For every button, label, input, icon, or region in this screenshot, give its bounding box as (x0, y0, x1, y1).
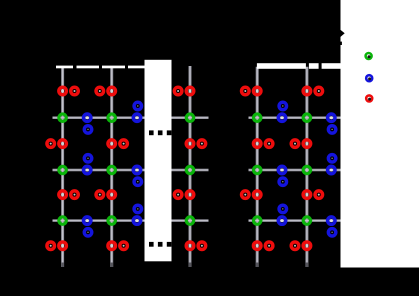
B-site blue pair row 2 x=87 (left) (84, 155, 92, 174)
B-site blue pair row 2 x=331 (right) (328, 155, 336, 174)
A-site green atom row 3 x=63 (left) (59, 217, 66, 224)
O2 red pair row 3 line x=63 (left) (59, 191, 78, 199)
wire vertical line 2 (left panel) (110, 67, 113, 267)
legend panel (white box) (341, 0, 419, 268)
wire vertical line 2 (right panel) (305, 67, 308, 267)
A-site green atom row 2 x=190 (left) (186, 166, 193, 173)
O2 red pair row 1 line x=190 (left) (174, 87, 193, 95)
O2 red pair row 1 line x=307 (right) (303, 87, 322, 95)
O2 red pair row 3 line x=307 (right) (303, 191, 322, 199)
B-site blue pair row 1 x=331 (right) (328, 114, 336, 133)
legend A-site (green) (366, 53, 372, 59)
B-site blue pair row 1 x=87 (left) (84, 114, 92, 133)
O2 red pair row 2 line x=112 (left) (108, 140, 127, 148)
arrowhead tip (341, 30, 345, 37)
interface dash 3 (right panel) (322, 63, 341, 69)
wire horizontal line row 3 (right panel) (249, 219, 341, 222)
O2 red pair row 3 line x=112 (left) (96, 191, 115, 199)
A-site green atom row 1 x=257 (right) (254, 114, 261, 121)
O2 red pair row 4 line x=307 (right) (291, 242, 310, 250)
ellipsis strip (white box) (145, 60, 172, 261)
A-site green atom row 3 x=112 (left) (108, 217, 115, 224)
ellipsis dot (167, 242, 172, 247)
ellipsis dot (167, 130, 172, 135)
O2 red pair row 4 line x=190 (left) (186, 242, 205, 250)
A-site green atom row 2 x=112 (left) (108, 166, 115, 173)
wire horizontal line row 2 (left panel) (53, 169, 145, 172)
legend B-site (blue) (366, 75, 372, 81)
A-site green atom row 1 x=307 (right) (303, 114, 310, 121)
interface dash 3 (left panel) (102, 66, 125, 69)
wire horizontal line row 2 (right panel) (249, 169, 341, 172)
O2 red pair row 4 line x=63 (left) (47, 242, 66, 250)
O2 red pair row 1 line x=257 (right) (242, 87, 261, 95)
ellipsis dot (149, 130, 154, 135)
wire horizontal line row 1 (left panel) (53, 116, 145, 119)
O2 red pair row 2 line x=257 (right) (253, 140, 272, 148)
O2 red pair row 4 line x=257 (right) (253, 242, 272, 250)
wire vertical line 3 (left panel) (189, 66, 192, 267)
B-site blue pair row 2 x=282 (right) (278, 166, 286, 185)
O2 red pair row 2 line x=307 (right) (291, 140, 310, 148)
O2 red pair row 1 line x=63 (left) (59, 87, 78, 95)
ellipsis dot (158, 242, 163, 247)
wire horizontal line row 1 (right panel) (249, 116, 341, 119)
A-site green atom row 1 x=112 (left) (108, 114, 115, 121)
O2 red pair row 2 line x=190 (left) (186, 140, 205, 148)
B-site blue pair row 1 x=137 (left) (133, 102, 141, 121)
legend O (red) (366, 95, 372, 101)
wire vertical line 1 (left panel) (61, 67, 64, 267)
wire stub row 3 at line 3 (left panel) (172, 219, 209, 222)
wire stub row 1 at line 3 (left panel) (172, 116, 209, 119)
B-site blue pair row 3 x=137 (left) (133, 205, 141, 224)
O2 red pair row 3 line x=257 (right) (242, 191, 261, 199)
wire stub row 2 at line 3 (left panel) (172, 169, 209, 172)
interface dash 1 (left panel) (56, 66, 73, 69)
interface dash 1 (right panel) (257, 63, 306, 69)
O2 red pair row 3 line x=190 (left) (174, 191, 193, 199)
B-site blue pair row 3 x=87 (left) (84, 217, 92, 236)
A-site green atom row 2 x=257 (right) (254, 166, 261, 173)
B-site blue pair row 3 x=282 (right) (278, 205, 286, 224)
arrow shaft nub (341, 42, 342, 45)
B-site blue pair row 1 x=282 (right) (278, 102, 286, 121)
B-site blue pair row 3 x=331 (right) (328, 217, 336, 236)
wire vertical line 1 (right panel) (256, 67, 259, 267)
B-site blue pair row 2 x=137 (left) (133, 166, 141, 185)
wire horizontal line row 3 (left panel) (53, 219, 145, 222)
A-site green atom row 1 x=63 (left) (59, 114, 66, 121)
ellipsis dot (158, 130, 163, 135)
O2 red pair row 2 line x=63 (left) (47, 140, 66, 148)
O2 red pair row 1 line x=112 (left) (96, 87, 115, 95)
interface dash 2 (right panel) (309, 63, 319, 69)
ellipsis dot (149, 242, 154, 247)
A-site green atom row 1 x=190 (left) (186, 114, 193, 121)
A-site green atom row 3 x=307 (right) (303, 217, 310, 224)
A-site green atom row 3 x=190 (left) (186, 217, 193, 224)
O2 red pair row 4 line x=112 (left) (108, 242, 127, 250)
A-site green atom row 3 x=257 (right) (254, 217, 261, 224)
A-site green atom row 2 x=63 (left) (59, 166, 66, 173)
interface dash 4 (left panel) (128, 66, 145, 69)
A-site green atom row 2 x=307 (right) (303, 166, 310, 173)
interface dash 2 (left panel) (77, 66, 100, 69)
